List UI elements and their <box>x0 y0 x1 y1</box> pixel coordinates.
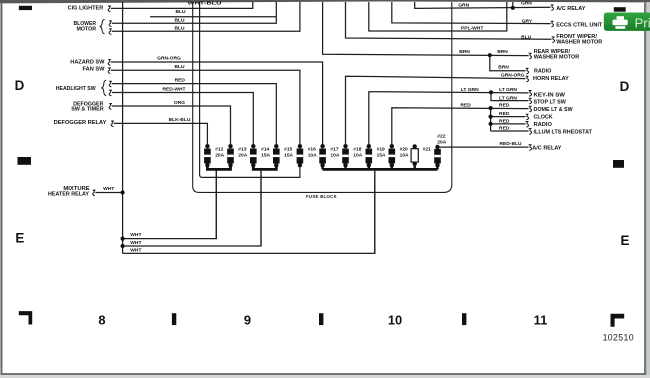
svg-text:10A: 10A <box>353 152 362 158</box>
pin BLOWER MOTOR lower <box>109 29 112 35</box>
wire HAZARD SW GRN-ORG to fuse 17 <box>111 62 323 144</box>
svg-text:#13: #13 <box>238 146 246 152</box>
pin ECCS CTRL UNIT <box>551 21 554 27</box>
tick bottom 1 <box>172 313 176 325</box>
node WHT row2 junction <box>121 244 125 248</box>
svg-text:A/C RELAY: A/C RELAY <box>532 145 561 151</box>
wire GRN to A/C relay <box>415 2 551 8</box>
svg-text:DEFOGGER RELAY: DEFOGGER RELAY <box>54 120 107 126</box>
svg-text:BLU: BLU <box>521 35 532 41</box>
wire PPL-WHT <box>369 2 507 31</box>
print button <box>604 13 650 31</box>
svg-text:SW & TIMER: SW & TIMER <box>71 106 104 112</box>
node WHT mixture junction <box>121 190 125 194</box>
tick left top <box>19 6 32 10</box>
svg-text:20A: 20A <box>437 139 446 145</box>
right device labels <box>532 6 603 151</box>
pin HEADLIGHT SW upper <box>109 81 112 87</box>
svg-text:PPL-WHT: PPL-WHT <box>461 25 483 31</box>
svg-text:D: D <box>15 78 25 93</box>
pin HEADLIGHT SW lower <box>109 90 112 96</box>
svg-text:BLK-BLU: BLK-BLU <box>169 117 191 123</box>
stub fuse 21 <box>414 165 416 170</box>
pin CIG LIGHTER <box>108 6 111 12</box>
svg-text:WHT-BLU: WHT-BLU <box>188 1 223 7</box>
svg-text:LT GRN: LT GRN <box>461 87 479 93</box>
node GRN branch junction <box>511 6 515 10</box>
drop from U1 <box>215 171 217 239</box>
svg-text:10A: 10A <box>330 152 339 158</box>
drop from bus 3 <box>374 171 376 254</box>
svg-text:ORG: ORG <box>174 100 185 106</box>
svg-text:ILLUM LTS RHEOSTAT: ILLUM LTS RHEOSTAT <box>534 130 593 136</box>
pin CLOCK <box>526 114 529 120</box>
svg-text:GRN-ORG: GRN-ORG <box>501 72 525 78</box>
svg-text:GRN-ORG: GRN-ORG <box>157 55 181 61</box>
wire HEADLIGHT SW RED-WHT to fuse 14 <box>112 93 253 145</box>
svg-text:#15: #15 <box>284 146 292 152</box>
svg-text:RED: RED <box>499 119 510 125</box>
wire LT GRN branch to stop light switch <box>491 92 529 100</box>
svg-text:RED: RED <box>460 102 471 108</box>
svg-text:BLU: BLU <box>174 17 185 23</box>
svg-text:11: 11 <box>534 312 548 327</box>
svg-text:BLU: BLU <box>174 64 185 70</box>
fuse value labels <box>215 134 447 200</box>
stub fuse 20 <box>391 165 393 170</box>
svg-text:BRN: BRN <box>459 49 470 55</box>
svg-text:#19: #19 <box>377 146 385 152</box>
pin REAR WIPER <box>529 53 532 59</box>
fuse F19 <box>366 144 373 167</box>
pin KEY-IN SW <box>529 91 532 97</box>
svg-text:ECCS CTRL UNIT: ECCS CTRL UNIT <box>556 23 603 29</box>
svg-text:HEATER RELAY: HEATER RELAY <box>48 192 89 198</box>
svg-text:E: E <box>15 230 24 245</box>
tick bottom 2 <box>319 313 323 325</box>
wire LT GRN fuse 19 to key-in switch <box>369 92 529 145</box>
tick left middle <box>18 157 32 165</box>
svg-text:BRN: BRN <box>497 49 508 55</box>
stub fuse 17 <box>321 165 323 170</box>
wire BLOWER MOTOR BLU lower <box>112 2 300 31</box>
wire color labels <box>103 1 533 254</box>
svg-text:BLU: BLU <box>174 25 185 31</box>
fuse F12 <box>204 144 211 167</box>
svg-text:RED: RED <box>499 103 510 109</box>
fuse F17 <box>319 144 326 167</box>
svg-text:#21: #21 <box>423 146 431 152</box>
pin DEFOGGER SW <box>109 104 112 110</box>
svg-text:RADIO: RADIO <box>534 69 552 75</box>
svg-text:10: 10 <box>388 312 402 327</box>
wire RED to clock <box>491 116 526 118</box>
svg-text:15A: 15A <box>261 152 270 158</box>
svg-text:RADIO: RADIO <box>534 122 553 128</box>
stub fuse 18 <box>344 165 346 170</box>
pin ILLUM RHEOSTAT <box>529 129 532 135</box>
wire fuse 16 return WHT <box>200 2 300 177</box>
wire CIG LIGHTER WHT-BLU <box>111 2 253 8</box>
fuse F15 <box>273 144 280 167</box>
svg-text:CIG LIGHTER: CIG LIGHTER <box>68 5 104 11</box>
svg-text:FAN SW: FAN SW <box>83 67 106 73</box>
svg-text:#20: #20 <box>400 146 408 152</box>
svg-text:WHT: WHT <box>103 186 114 192</box>
svg-text:GRY: GRY <box>522 18 533 24</box>
brace BLOWER MOTOR <box>100 20 105 34</box>
svg-text:RED-WHT: RED-WHT <box>162 87 185 93</box>
wire RED-BLU fuse 22 to A/C relay <box>438 146 529 148</box>
corner mark bottom left <box>19 311 32 324</box>
wire HEADLIGHT SW RED to fuse 15 <box>112 84 276 145</box>
node LT GRN junction <box>489 90 493 94</box>
wire RED fuse 20 to dome light <box>392 108 529 144</box>
svg-text:RED: RED <box>175 78 186 84</box>
tick right top <box>614 7 626 12</box>
wire WHT row 1 <box>123 171 217 239</box>
svg-text:WHT: WHT <box>130 240 141 246</box>
fuse F20 <box>389 144 396 167</box>
wire WHT row 3 <box>123 171 375 253</box>
svg-text:#22: #22 <box>437 134 445 140</box>
svg-text:20A: 20A <box>238 152 247 158</box>
svg-text:E: E <box>621 233 630 248</box>
tick bottom 3 <box>462 313 466 325</box>
svg-text:RED-BLU: RED-BLU <box>499 141 521 147</box>
svg-text:HEADLIGHT SW: HEADLIGHT SW <box>56 86 96 92</box>
pin DEFOGGER RELAY <box>111 121 114 127</box>
fuse F18 <box>342 144 349 167</box>
left device labels <box>48 5 107 197</box>
bottom grid numbers <box>98 312 547 327</box>
wire DEFOGGER RELAY BLK-BLU to fuse 12 <box>114 123 207 144</box>
wire main WHT bus vertical <box>122 2 124 253</box>
pin RADIO 1 <box>526 68 529 74</box>
wire GRN-ORG fuse 18 to horn relay <box>346 76 526 144</box>
wire GRN branch up <box>512 2 514 8</box>
wire BLU row2 <box>150 16 276 18</box>
wire FAN SW BLU to fuse 16 <box>111 70 300 144</box>
svg-text:8: 8 <box>98 312 105 327</box>
brace HEADLIGHT SW <box>101 80 106 95</box>
wire BRN branch to radio <box>490 55 526 70</box>
pin HAZARD SW <box>108 60 111 66</box>
svg-text:KEY-IN SW: KEY-IN SW <box>534 93 566 99</box>
stub fuse 19 <box>368 165 370 170</box>
svg-text:STOP LT SW: STOP LT SW <box>534 100 567 106</box>
pin DOME LT <box>529 106 532 112</box>
fuse F22 <box>434 145 441 168</box>
svg-text:RED: RED <box>499 111 510 117</box>
pin FRONT WIPER <box>552 37 555 43</box>
svg-text:#17: #17 <box>330 146 338 152</box>
svg-text:A/C RELAY: A/C RELAY <box>556 6 585 12</box>
fuse bus 3 fuses 17-22 <box>323 168 438 171</box>
svg-text:#18: #18 <box>353 146 361 152</box>
pin MIXTURE HEATER RELAY <box>93 190 96 196</box>
wire RED branch vertical <box>490 108 492 131</box>
wire RED to illumination rheostat <box>491 130 529 132</box>
svg-text:9: 9 <box>244 312 251 327</box>
svg-text:LT GRN: LT GRN <box>499 95 517 101</box>
node RED junction radio <box>489 122 493 126</box>
fuse bus U2 fuses 14-15 <box>253 165 276 170</box>
wire BLU to front wiper <box>346 2 552 39</box>
node BRN junction <box>488 53 492 57</box>
fuse F21 spare open body <box>411 144 418 166</box>
tick right middle <box>613 160 624 168</box>
svg-text:20A: 20A <box>215 152 224 158</box>
fuse F16 <box>297 144 304 167</box>
wire GRY to ECCS control unit <box>392 2 551 24</box>
fuse bus U1 fuses 12-13 <box>207 165 230 170</box>
wire BLOWER MOTOR BLU upper <box>112 2 276 23</box>
svg-text:GRN: GRN <box>521 1 532 7</box>
pin RADIO 2 <box>526 122 529 128</box>
drop from U2 <box>260 171 262 246</box>
page borders <box>0 0 650 3</box>
svg-text:15A: 15A <box>377 152 386 158</box>
fuse block outline <box>193 2 452 192</box>
svg-text:MOTOR: MOTOR <box>77 27 97 33</box>
pin HORN RELAY <box>526 76 529 82</box>
svg-text:RED: RED <box>499 126 510 132</box>
svg-text:BLU: BLU <box>175 9 186 15</box>
svg-text:Print: Print <box>635 15 650 30</box>
pin STOP LT SW <box>529 98 532 104</box>
svg-text:CLOCK: CLOCK <box>534 115 553 121</box>
svg-text:BRN: BRN <box>498 65 509 71</box>
fuses <box>204 144 441 167</box>
wire MIXTURE HEATER RELAY WHT <box>96 192 123 194</box>
stub fuse 22 <box>436 165 438 170</box>
svg-text:102510: 102510 <box>603 332 634 342</box>
wire BRN to rear wiper <box>323 2 529 56</box>
svg-text:HORN RELAY: HORN RELAY <box>533 76 569 82</box>
svg-text:#14: #14 <box>261 146 269 152</box>
svg-text:10A: 10A <box>400 152 409 158</box>
svg-text:WHT: WHT <box>130 232 141 238</box>
wire RED to radio <box>491 123 526 125</box>
svg-text:FUSE BLOCK: FUSE BLOCK <box>306 194 337 200</box>
svg-text:D: D <box>620 79 630 94</box>
node RED junction dome <box>489 106 493 110</box>
svg-text:DOME LT & SW: DOME LT & SW <box>534 107 574 113</box>
margin tick marks <box>18 6 626 327</box>
svg-text:WHT: WHT <box>130 247 141 253</box>
pin BLOWER MOTOR upper <box>109 21 112 27</box>
pin FAN SW <box>108 68 111 74</box>
svg-text:GRN: GRN <box>458 3 469 9</box>
pin A/C RELAY 2 <box>529 145 532 151</box>
grid letters <box>15 78 630 248</box>
svg-text:#16: #16 <box>308 146 316 152</box>
fuse F14 <box>250 144 257 167</box>
fuse F13 <box>227 144 234 167</box>
pin A/C RELAY <box>551 5 554 11</box>
svg-text:LT GRN: LT GRN <box>499 87 517 93</box>
node RED junction clock <box>489 115 493 119</box>
node WHT row1 junction <box>121 237 125 241</box>
svg-text:10A: 10A <box>308 152 317 158</box>
svg-text:15A: 15A <box>284 152 293 158</box>
svg-text:WASHER MOTOR: WASHER MOTOR <box>556 39 602 45</box>
svg-text:WASHER MOTOR: WASHER MOTOR <box>534 55 580 61</box>
svg-text:HAZARD SW: HAZARD SW <box>70 60 105 66</box>
svg-text:#12: #12 <box>215 146 223 152</box>
wire DEFOGGER SW ORG to fuse 13 <box>112 106 231 144</box>
wire WHT row 2 <box>123 171 261 246</box>
corner mark bottom right <box>611 314 625 327</box>
